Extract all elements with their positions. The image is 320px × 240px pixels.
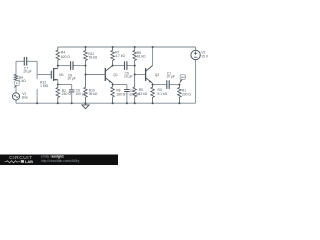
svg-text:10 µF: 10 µF <box>124 75 133 79</box>
svg-text:LAB: LAB <box>25 159 33 164</box>
svg-text:R4: R4 <box>61 51 65 55</box>
svg-text:sine: sine <box>22 95 28 99</box>
svg-text:C5: C5 <box>130 89 134 93</box>
svg-text:200 Ω: 200 Ω <box>182 92 191 96</box>
svg-text:1.05 mA: 1.05 mA <box>122 93 131 96</box>
svg-text:assign1: assign1 <box>52 155 64 159</box>
svg-text:100 µF: 100 µF <box>129 93 139 97</box>
svg-text:1 MΩ: 1 MΩ <box>40 84 48 88</box>
svg-text:Q2: Q2 <box>155 73 160 77</box>
svg-text:10 µF: 10 µF <box>67 77 76 81</box>
svg-text:1 kΩ: 1 kΩ <box>19 79 26 83</box>
svg-text:R1: R1 <box>182 89 186 93</box>
svg-text:R5: R5 <box>139 88 143 92</box>
svg-text:Q1: Q1 <box>113 73 118 77</box>
svg-text:R8: R8 <box>116 88 120 92</box>
svg-text:91 kΩ: 91 kΩ <box>137 55 146 59</box>
svg-text:10 µF: 10 µF <box>23 70 32 74</box>
svg-text:15 V: 15 V <box>201 54 209 58</box>
svg-text:5.1 kΩ: 5.1 kΩ <box>158 92 168 96</box>
svg-text:43 kΩ: 43 kΩ <box>139 92 148 96</box>
svg-text:78 kΩ: 78 kΩ <box>88 55 97 59</box>
svg-text:10 µF: 10 µF <box>166 75 175 79</box>
svg-text:V2: V2 <box>201 51 205 55</box>
svg-text:http://circuitlab.com/c6t3ry: http://circuitlab.com/c6t3ry <box>41 159 80 163</box>
svg-text:100 µF: 100 µF <box>75 92 85 96</box>
svg-text:4.7 kΩ: 4.7 kΩ <box>115 54 125 58</box>
svg-text:620 Ω: 620 Ω <box>61 55 70 59</box>
svg-text:M1: M1 <box>59 73 64 77</box>
svg-text:R3: R3 <box>158 88 162 92</box>
svg-text:emay /: emay / <box>41 155 51 159</box>
svg-text:39 kΩ: 39 kΩ <box>89 92 98 96</box>
